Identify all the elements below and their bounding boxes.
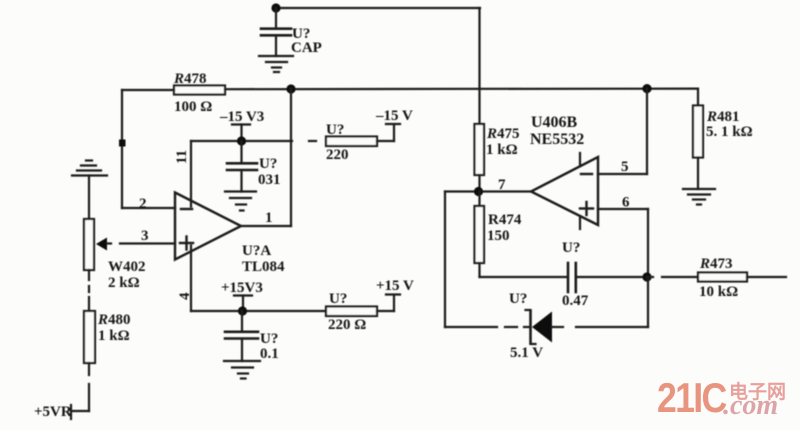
node junction R478/output bbox=[286, 84, 295, 93]
pin 7 output wire bbox=[445, 190, 531, 192]
svg-text:U?: U? bbox=[259, 156, 277, 172]
potentiometer W402 bbox=[84, 219, 94, 270]
label R474 150 bbox=[487, 212, 522, 244]
ground (031 cap) bbox=[225, 192, 256, 211]
wire pot to R480 (broken scan dashes) bbox=[88, 270, 90, 311]
svg-text:220 Ω: 220 Ω bbox=[328, 317, 366, 333]
label U406B NE5532 bbox=[530, 114, 584, 148]
svg-text:1 kΩ: 1 kΩ bbox=[486, 142, 518, 158]
svg-text:+5VR: +5VR bbox=[34, 404, 72, 420]
wire output vertical (pin1 up to rail) bbox=[290, 89, 292, 226]
node black square on feedback wire bbox=[119, 140, 126, 147]
wire R481 to ground bbox=[697, 158, 699, 190]
resistor U? 220 (upper) bbox=[326, 137, 377, 147]
wire R474 bottom corner bbox=[480, 263, 568, 277]
label U?A TL084 bbox=[242, 243, 285, 275]
label R481 5.1k bbox=[706, 109, 753, 140]
resistor R478 bbox=[174, 86, 225, 95]
svg-text:NE5532: NE5532 bbox=[530, 131, 584, 148]
svg-text:5.1 V: 5.1 V bbox=[510, 345, 543, 361]
svg-text:6: 6 bbox=[622, 195, 630, 211]
ground (0.1 cap) bbox=[224, 361, 260, 379]
svg-text:7: 7 bbox=[498, 177, 506, 193]
wire feedback vertical left bbox=[121, 90, 123, 208]
wire rail corner down to R481 bbox=[697, 89, 699, 106]
svg-text:–15 V: –15 V bbox=[375, 108, 413, 124]
svg-text:+15V3: +15V3 bbox=[221, 280, 263, 296]
svg-text:R481: R481 bbox=[706, 109, 740, 125]
wire R478 left to feedback corner bbox=[122, 89, 174, 91]
svg-text:031: 031 bbox=[258, 172, 281, 188]
svg-text:U?: U? bbox=[329, 291, 347, 307]
label W402 2k bbox=[108, 259, 146, 291]
pin 11 wire bbox=[190, 141, 192, 207]
capacitor U? CAP bbox=[261, 8, 291, 56]
svg-text:+15 V: +15 V bbox=[376, 278, 414, 294]
wire pin 3 to wiper bbox=[107, 242, 175, 244]
wire vertical from top node down to R475 bbox=[478, 8, 480, 124]
capacitor U? 0.47 bbox=[568, 263, 576, 292]
label U? 031 bbox=[258, 156, 281, 188]
wire pin4 rail bbox=[191, 310, 326, 312]
svg-text:R475: R475 bbox=[486, 126, 520, 142]
label U? 220 ohm bbox=[328, 291, 366, 333]
svg-text:U?: U? bbox=[509, 291, 527, 307]
svg-text:150: 150 bbox=[487, 228, 510, 244]
wire op-amp output pin 1 bbox=[241, 225, 291, 227]
node 7 junction bbox=[474, 187, 483, 196]
svg-text:10 kΩ: 10 kΩ bbox=[699, 284, 738, 300]
label U? CAP bbox=[291, 26, 322, 56]
zener diode U? 5.1V bbox=[526, 310, 553, 344]
wire R473 to right edge bbox=[747, 276, 786, 278]
svg-text:TL084: TL084 bbox=[242, 259, 285, 275]
label R478 100 ohm bbox=[173, 71, 212, 115]
wire junction to R473 (scan dashes) bbox=[647, 276, 698, 278]
svg-text:CAP: CAP bbox=[291, 40, 322, 56]
net +15V3 stub bbox=[234, 296, 252, 312]
wire zener loop left vertical bbox=[444, 192, 446, 328]
resistor R480 bbox=[84, 311, 95, 363]
resistor R475 bbox=[475, 124, 485, 175]
label U? 220 bbox=[326, 122, 349, 163]
svg-text:U406B: U406B bbox=[531, 114, 578, 131]
svg-text:5. 1 kΩ: 5. 1 kΩ bbox=[706, 124, 753, 140]
op-amp U?A TL084 bbox=[175, 193, 241, 260]
ground (R481) bbox=[683, 189, 715, 205]
svg-text:R478: R478 bbox=[173, 71, 207, 87]
svg-text:U?: U? bbox=[326, 122, 344, 138]
wire R478 right to main rail bbox=[225, 87, 697, 90]
pin 4 wire bbox=[190, 246, 192, 312]
resistor R481 bbox=[693, 106, 703, 158]
svg-text:0.1: 0.1 bbox=[260, 346, 279, 362]
wire R480 down to +5VR bbox=[71, 363, 89, 419]
label U? 0.1 bbox=[260, 331, 279, 362]
svg-text:220: 220 bbox=[326, 147, 349, 163]
label R473 10k bbox=[699, 256, 738, 300]
svg-text:3: 3 bbox=[141, 228, 149, 244]
svg-text:U?: U? bbox=[562, 240, 580, 256]
svg-text:5: 5 bbox=[621, 159, 629, 175]
svg-text:100 Ω: 100 Ω bbox=[174, 99, 212, 115]
wire R475 to node 7 bbox=[478, 175, 480, 192]
svg-text:U?: U? bbox=[260, 331, 278, 347]
label U? 5.1 V bbox=[509, 291, 543, 361]
logo 21IC.com (watermark) bbox=[657, 375, 786, 421]
node output junction bbox=[642, 272, 651, 281]
pin 5 wire bbox=[598, 89, 647, 174]
wire to pin 2 bbox=[122, 207, 175, 209]
svg-text:R473: R473 bbox=[699, 256, 733, 272]
svg-text:R474: R474 bbox=[488, 212, 522, 228]
svg-text:2: 2 bbox=[139, 196, 147, 212]
node -15V3 junction bbox=[237, 136, 246, 145]
resistor R474 bbox=[475, 206, 485, 263]
svg-text:2 kΩ: 2 kΩ bbox=[108, 275, 140, 291]
wiper arrow of W402 bbox=[96, 238, 107, 251]
svg-text:W402: W402 bbox=[108, 259, 146, 275]
node top cap junction bbox=[271, 3, 280, 12]
wire 220 to +15V stub bbox=[377, 295, 400, 312]
wire zener loop right vertical bbox=[647, 277, 649, 327]
pin 6 wire bbox=[598, 209, 648, 277]
svg-text:4: 4 bbox=[177, 292, 193, 300]
capacitor U? 031 bbox=[227, 141, 257, 192]
resistor U? 220 ohm (lower) bbox=[326, 307, 377, 317]
wire top cap node horizontal bbox=[276, 7, 480, 9]
wire 220 to -15V stub bbox=[377, 124, 400, 141]
op-amp U406B NE5532 bbox=[531, 153, 598, 229]
svg-text:1: 1 bbox=[265, 210, 273, 226]
node +15V3 junction bbox=[238, 306, 247, 315]
svg-text:21IC: 21IC bbox=[657, 375, 727, 421]
svg-text:U?A: U?A bbox=[242, 243, 271, 259]
svg-text:11: 11 bbox=[174, 150, 190, 164]
wire cap to junction bbox=[576, 276, 647, 278]
wire zener loop bottom left (scan dashes) bbox=[445, 326, 529, 328]
node rail/R481/pin5 junction bbox=[642, 84, 651, 93]
capacitor U? 0.1 bbox=[225, 311, 258, 361]
label R475 1k bbox=[486, 126, 520, 158]
svg-text:1 kΩ: 1 kΩ bbox=[98, 328, 130, 344]
svg-text:0.47: 0.47 bbox=[562, 293, 589, 309]
label R480 1k bbox=[97, 312, 131, 344]
net -15V3 stub bbox=[232, 125, 250, 142]
wire ground to pot bbox=[88, 176, 90, 220]
svg-text:R480: R480 bbox=[97, 312, 131, 328]
ground (left, inverted) bbox=[72, 161, 107, 176]
svg-text:–15 V3: –15 V3 bbox=[219, 109, 264, 125]
wire zener right (scan dashes) bbox=[552, 326, 648, 328]
label U? 0.47 bbox=[562, 240, 589, 309]
ground (top cap) bbox=[259, 56, 293, 72]
wire -15V3 rail bbox=[191, 140, 292, 142]
wire dash segment bbox=[309, 140, 316, 142]
wire node7 to R474 bbox=[478, 192, 480, 207]
svg-text:.com: .com bbox=[723, 390, 778, 421]
resistor R473 bbox=[698, 273, 747, 282]
